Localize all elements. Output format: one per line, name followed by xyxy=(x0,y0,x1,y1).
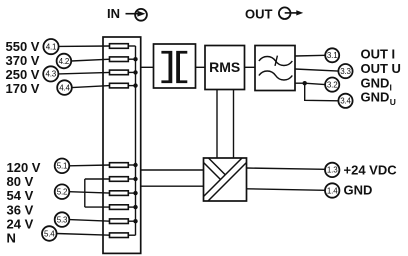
resistor R1 (550V row) xyxy=(110,44,129,49)
svg-text:120 V: 120 V xyxy=(7,160,41,175)
wire tap to 80V resistor xyxy=(85,178,110,180)
svg-text:GND: GND xyxy=(344,183,373,198)
svg-text:OUT: OUT xyxy=(245,7,273,22)
wire RMS down left xyxy=(216,90,218,159)
transformer T1 box xyxy=(154,44,196,88)
svg-text:OUT U: OUT U xyxy=(361,61,401,76)
wire resistor R10 to bus xyxy=(128,234,135,236)
sine wave lower xyxy=(259,71,292,80)
svg-text:250 V: 250 V xyxy=(6,67,40,82)
svg-text:5.3: 5.3 xyxy=(57,215,68,224)
wire resistor R9 to bus xyxy=(128,220,135,222)
junction bus-R3 xyxy=(133,70,137,74)
terminal circle 4.4 xyxy=(57,80,72,95)
resistor R3 (250V row) xyxy=(110,70,129,75)
wire resistor R7 to bus xyxy=(128,192,135,194)
transformer winding right xyxy=(176,51,187,83)
wire to 3.4 xyxy=(305,83,339,101)
wire 5.3 to block xyxy=(69,220,110,222)
junction bus-R4 xyxy=(133,83,137,87)
svg-text:U: U xyxy=(390,97,396,107)
terminal circle 3.3 xyxy=(338,64,352,78)
svg-text:N: N xyxy=(7,230,16,245)
terminal circle 4.1 xyxy=(43,39,58,54)
resistor R6 (80V row) xyxy=(110,177,129,182)
wire 5.2 to block xyxy=(69,192,110,193)
resistor R7 (54V row) xyxy=(110,191,129,196)
svg-text:4.1: 4.1 xyxy=(46,42,57,51)
wire 5.4 to block xyxy=(57,234,110,236)
svg-text:80 V: 80 V xyxy=(7,174,34,189)
resistor R9 (24V row) xyxy=(110,219,129,224)
svg-text:IN: IN xyxy=(107,6,120,21)
svg-text:24 V: 24 V xyxy=(7,216,34,231)
RMS converter box xyxy=(205,46,245,90)
wire 4.1 to block xyxy=(59,45,110,47)
transformer winding left xyxy=(161,51,172,83)
svg-text:5.1: 5.1 xyxy=(57,162,68,171)
terminal circle 4.2 xyxy=(57,54,72,69)
converter diagonal band xyxy=(204,158,247,201)
wire block to converter upper xyxy=(141,169,204,171)
resistor R10 (N row) xyxy=(110,233,129,238)
wire 5.2 tap vertical xyxy=(84,179,86,207)
resistor R5 (120V row) xyxy=(110,163,129,168)
wire 4.2 to block xyxy=(71,59,110,61)
terminal circle 1.3 xyxy=(325,163,339,177)
wire RMS down right xyxy=(233,90,235,159)
svg-text:4.4: 4.4 xyxy=(59,83,70,92)
terminal circle 5.1 xyxy=(55,159,70,174)
svg-text:36 V: 36 V xyxy=(7,202,34,217)
IN arrow icon xyxy=(126,9,147,21)
terminal circle 4.3 xyxy=(43,66,58,81)
wire resistor R4 to bus xyxy=(128,85,135,87)
junction bus-R7 xyxy=(133,191,137,195)
wire filter to 3.3 xyxy=(295,69,338,71)
resistor R4 (170V row) xyxy=(110,83,129,88)
svg-text:GND: GND xyxy=(361,90,390,105)
junction bus-R5 xyxy=(133,163,137,167)
OUT arrow icon xyxy=(279,7,303,19)
junction bus-R6 xyxy=(133,177,137,181)
svg-text:4.3: 4.3 xyxy=(46,70,57,79)
svg-text:5.2: 5.2 xyxy=(57,188,68,197)
svg-text:370 V: 370 V xyxy=(6,53,40,68)
wire resistor R1 to bus xyxy=(128,45,135,47)
svg-text:550 V: 550 V xyxy=(6,39,40,54)
sine wave upper xyxy=(259,57,292,66)
svg-text:1.3: 1.3 xyxy=(327,166,338,175)
wire 4.3 to block xyxy=(58,72,110,74)
resistor R8 (36V row) xyxy=(110,205,129,210)
svg-text:3.3: 3.3 xyxy=(340,67,351,76)
wire RMS to filter xyxy=(245,66,256,68)
junction node GND xyxy=(303,81,307,85)
svg-text:3.2: 3.2 xyxy=(327,80,338,89)
svg-text:I: I xyxy=(390,83,392,93)
wire block to transformer xyxy=(141,66,154,68)
wire filter to 3.1 xyxy=(295,54,325,57)
svg-text:3.1: 3.1 xyxy=(327,51,338,60)
terminal circle 5.4 xyxy=(42,226,57,241)
wire resistor R6 to bus xyxy=(128,178,135,180)
svg-text:+24 VDC: +24 VDC xyxy=(344,163,398,178)
terminal circle 3.4 xyxy=(338,94,352,108)
junction bus-R2 xyxy=(133,57,137,61)
terminal circle 5.3 xyxy=(55,212,70,227)
junction bus-R8 xyxy=(133,205,137,209)
DC/DC converter box xyxy=(204,158,247,201)
terminal circle 5.2 xyxy=(55,184,70,199)
slash on upper sine xyxy=(275,56,277,66)
svg-text:3.4: 3.4 xyxy=(340,97,351,106)
svg-text:5.4: 5.4 xyxy=(44,229,55,238)
svg-text:GND: GND xyxy=(361,75,390,90)
junction bus-R9 xyxy=(133,219,137,223)
wire resistor R2 to bus xyxy=(128,58,135,60)
wire tap to 36V resistor xyxy=(85,206,110,208)
wire 4.4 to block xyxy=(72,86,110,88)
wire block to converter lower xyxy=(141,185,204,187)
wire resistor R8 to bus xyxy=(128,206,135,208)
svg-text:OUT I: OUT I xyxy=(361,47,396,62)
wire resistor R5 to bus xyxy=(128,164,135,166)
terminal circle 3.2 xyxy=(325,78,339,92)
svg-text:1.4: 1.4 xyxy=(327,186,338,195)
svg-text:4.2: 4.2 xyxy=(59,57,70,66)
wire transformer to RMS xyxy=(196,66,206,68)
filter box xyxy=(255,46,295,91)
wire filter to 3.2 xyxy=(295,83,325,84)
bus wire vertical xyxy=(135,46,137,235)
resistor R2 (370V row) xyxy=(110,57,129,62)
wire converter to 1.4 xyxy=(247,189,326,191)
wire resistor R3 to bus xyxy=(128,71,135,73)
terminal circle 3.1 xyxy=(325,48,339,62)
converter chopper arm xyxy=(204,158,226,180)
wire converter to 1.3 xyxy=(247,168,326,169)
terminal block xyxy=(103,37,141,253)
svg-text:170 V: 170 V xyxy=(6,81,40,96)
terminal circle 1.4 xyxy=(325,183,339,197)
wire 5.1 to block xyxy=(69,164,110,167)
svg-text:RMS: RMS xyxy=(209,59,240,75)
svg-text:54 V: 54 V xyxy=(7,188,34,203)
